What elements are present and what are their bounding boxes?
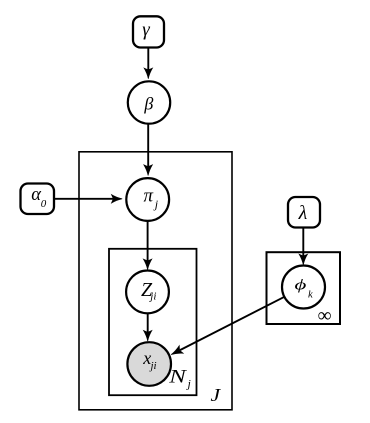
node phi_k [282,266,325,309]
node Z_ji [126,271,169,314]
svg-text:ji: ji [149,360,157,372]
wire beta to pi_j [144,125,153,176]
node pi_j [126,178,169,221]
wire phi_k to x_ji [171,297,284,355]
node lambda (hyperparameter box) [288,197,320,228]
svg-text:ji: ji [148,290,156,302]
plate infinity (right plate) [267,252,341,324]
wire pi_j to Z_ji [143,221,152,270]
node x_ji (observed, shaded) [127,342,171,386]
svg-text:λ: λ [298,202,308,224]
svg-text:N: N [168,365,187,386]
label N_j (inner plate count) [168,365,191,391]
wire Z_ji to x_ji [143,314,152,342]
svg-text:π: π [144,186,154,207]
svg-text:γ: γ [142,19,150,40]
svg-text:ϕ: ϕ [294,277,306,293]
svg-text:β: β [143,94,153,114]
svg-text:0: 0 [41,198,47,210]
svg-text:J: J [211,386,222,406]
node alpha_0 (hyperparameter box) [21,184,55,215]
node beta [128,81,170,123]
svg-text:k: k [308,289,313,300]
wire gamma to beta [144,48,153,79]
plate N_j (inner plate) [109,249,197,395]
wire alpha_0 to pi_j [54,195,122,204]
svg-text:∞: ∞ [318,305,332,326]
wire lambda to phi_k [299,228,308,265]
plate J (outer plate) [79,152,232,410]
node gamma (hyperparameter box) [133,16,164,47]
